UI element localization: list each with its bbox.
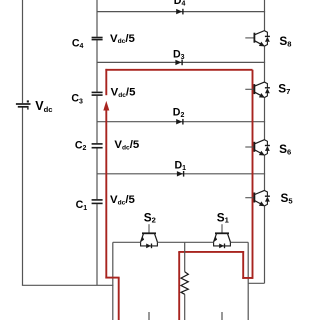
battery Vdc short plate (18, 106, 29, 108)
capacitor C2 top plate (92, 143, 103, 145)
diode D1 triangle (177, 171, 183, 176)
wire red load-left drop (178, 252, 180, 320)
wire S1/S2 rail left segment (113, 241, 141, 243)
wire top rail D4 (97, 11, 265, 13)
wire red left drop to edge (118, 278, 120, 320)
wire red top horizontal (105, 69, 252, 71)
wire S8-S7 segment (264, 46, 266, 83)
capacitor C3 bottom plate (92, 94, 103, 96)
transistor S5 (IGBT with anti-parallel diode) (245, 197, 254, 199)
wire rail D1 (97, 173, 265, 175)
battery plus mark (27, 100, 29, 102)
wire S6-S5 segment (264, 155, 266, 191)
wire red bottom-right horizontal (242, 277, 252, 279)
wire S1/S2 rail middle segment (157, 241, 213, 243)
capacitor C4 top plate (92, 37, 103, 39)
wire red right vertical (252, 70, 254, 279)
wire load top lead (184, 242, 186, 271)
battery minus mark (27, 108, 28, 110)
wire C3-C2 segment (96, 96, 98, 143)
wire red left stub above arrow (105, 69, 107, 95)
wire C4-C3 segment (96, 40, 98, 91)
capacitor C4 bottom plate (92, 39, 103, 41)
transistor S7 (IGBT with anti-parallel diode) (245, 88, 254, 90)
wire S1/S2 rail right segment (230, 241, 248, 243)
wire right chain top stub (264, 0, 266, 31)
wire red lower horizontal (178, 251, 244, 253)
wire load bottom lead (184, 294, 186, 320)
transistor S1 (IGBT with anti-parallel diode) (221, 224, 223, 233)
wire rail D3 (97, 61, 265, 63)
wire battery negative lead (22, 108, 24, 286)
wire C1-bottom segment (96, 204, 98, 285)
capacitor C1 bottom plate (92, 202, 103, 204)
capacitor C2 bottom plate (92, 147, 103, 149)
wire S5 emitter drop (264, 206, 266, 284)
wire red left jog horizontal (105, 277, 119, 279)
wire S7-S6 segment (264, 97, 266, 140)
wire red left vertical (105, 110, 107, 279)
resistor load (zigzag) (181, 272, 188, 295)
wire C2-C1 segment (96, 148, 98, 199)
wire red bottom-right riser (242, 251, 244, 279)
wire bottom stub right (221, 312, 223, 320)
capacitor C3 top plate (92, 91, 103, 93)
battery Vdc long plate (16, 103, 31, 105)
wire bottom stub left (148, 312, 150, 320)
node red arrow (current direction) (103, 101, 109, 111)
diode D2 cathode bar (182, 119, 184, 125)
diode D1 cathode bar (183, 171, 185, 177)
diode D4 cathode bar (182, 9, 184, 15)
transistor S8 (IGBT with anti-parallel diode) (245, 37, 254, 39)
wire bottom-right link horizontal (248, 282, 264, 284)
capacitor C1 top plate (92, 199, 103, 201)
wire battery positive lead (22, 0, 24, 103)
wire bottom-right drop to edge (247, 242, 249, 320)
diode D4 triangle (176, 9, 182, 14)
wire capacitor column top (96, 0, 98, 37)
transistor S6 (IGBT with anti-parallel diode) (245, 146, 254, 148)
svg-text:D4: D4 (174, 0, 186, 7)
transistor S2 (IGBT with anti-parallel diode) (148, 224, 150, 233)
wire rail D2 (97, 121, 265, 123)
diode D2 triangle (176, 119, 182, 124)
wire battery bottom return (22, 284, 114, 286)
diode D3 cathode bar (181, 60, 183, 66)
diode D3 triangle (175, 60, 181, 65)
wire left drop to edge (112, 242, 114, 320)
